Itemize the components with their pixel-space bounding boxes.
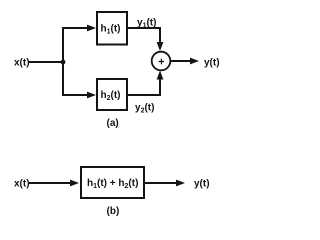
svg-text:x(t): x(t) (14, 58, 30, 69)
svg-text:h2(t): h2(t) (101, 90, 121, 102)
wire branch to h1 input (62, 25, 96, 32)
summing node plus sign (159, 59, 165, 65)
svg-text:y1(t): y1(t) (137, 18, 156, 30)
block h1 (97, 12, 127, 45)
wire branch vertical (62, 27, 64, 96)
wire h1 output to summing node (128, 27, 163, 51)
svg-text:(a): (a) (107, 118, 119, 129)
wire branch to h2 input (62, 92, 96, 99)
svg-text:(b): (b) (107, 206, 120, 217)
block h2 (97, 79, 127, 110)
wire x(t) to branch point (28, 61, 64, 63)
svg-text:y(t): y(t) (194, 179, 210, 190)
block h1+h2 (81, 167, 144, 198)
wire x(t) to block b (29, 180, 79, 187)
summing node U1 (152, 52, 171, 71)
wire h2 output to summing node (128, 71, 163, 97)
junction branch point (61, 60, 66, 65)
wire block b to y(t) (144, 180, 185, 187)
svg-text:h1(t): h1(t) (101, 24, 121, 36)
svg-text:y2(t): y2(t) (135, 103, 154, 115)
svg-text:y(t): y(t) (204, 58, 220, 69)
wire summing node to y(t) (171, 58, 200, 65)
svg-text:x(t): x(t) (14, 179, 30, 190)
